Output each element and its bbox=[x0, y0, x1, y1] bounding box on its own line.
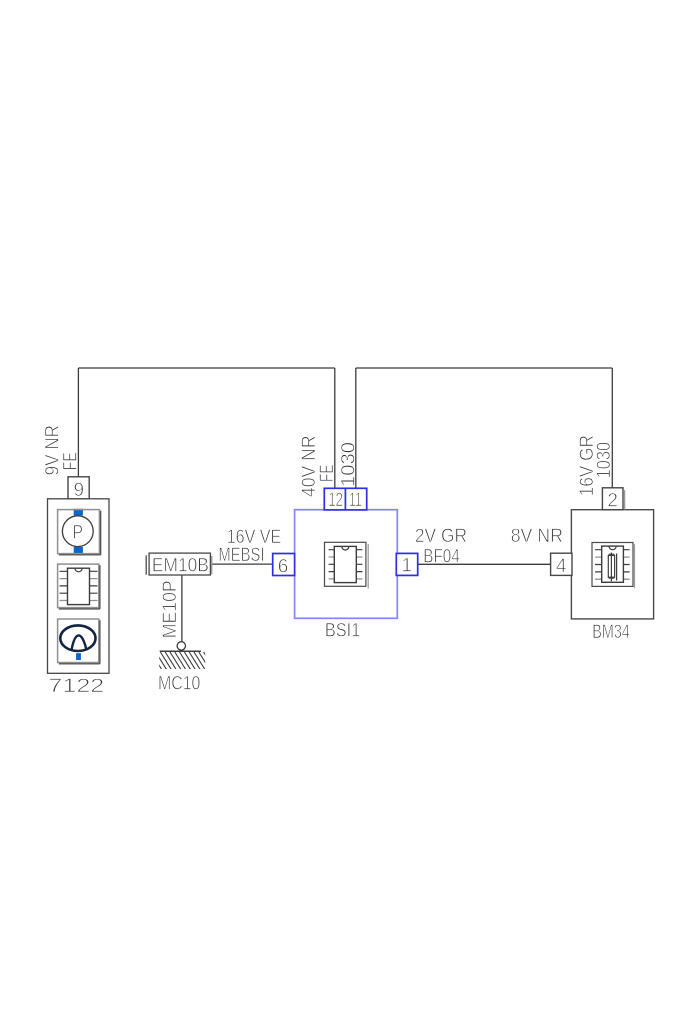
svg-text:12: 12 bbox=[328, 490, 343, 511]
P lamp circle bbox=[62, 516, 93, 547]
svg-text:6: 6 bbox=[278, 557, 289, 578]
IC notch (7122) bbox=[75, 568, 82, 572]
ground line bbox=[160, 650, 201, 652]
svg-text:BF04: BF04 bbox=[423, 545, 460, 567]
BM34 IC outer rect bbox=[592, 543, 633, 587]
svg-text:MEBSI: MEBSI bbox=[218, 544, 264, 566]
BSI1 IC pins right bbox=[356, 550, 362, 572]
sub-symbol box IC bbox=[58, 564, 100, 609]
blue tab bottom of P lamp bbox=[74, 547, 83, 554]
BM34 IC notch bbox=[609, 546, 616, 550]
BSI1 IC gray shadow bbox=[367, 544, 369, 589]
BSI1 IC notch bbox=[342, 546, 349, 550]
gauge bell curve bbox=[72, 635, 87, 649]
pin 2 gray shadow bbox=[624, 490, 626, 510]
pin 2 box bbox=[602, 488, 623, 510]
wire pin9 riser bbox=[77, 368, 79, 477]
BSI1 IC pins left bbox=[329, 550, 335, 572]
splice EM10B box bbox=[149, 553, 210, 575]
wire top-right horizontal net 1030 bbox=[356, 367, 613, 369]
gauge blue tab bottom bbox=[76, 653, 81, 660]
svg-text:1030: 1030 bbox=[593, 442, 615, 479]
BM34 IC pins left bbox=[595, 550, 602, 572]
module BM34 main box bbox=[571, 510, 653, 619]
BM34 fuse right line bbox=[616, 554, 618, 581]
pin 6 box bbox=[273, 554, 295, 576]
splice EM10B left tick bbox=[145, 555, 147, 574]
wire top-left horizontal 9V NR FE bbox=[78, 367, 334, 369]
BSI1 IC body bbox=[334, 546, 356, 582]
svg-text:8V NR: 8V NR bbox=[511, 525, 563, 547]
svg-text:9: 9 bbox=[74, 480, 85, 501]
BM34 fuse rect bbox=[608, 555, 614, 577]
svg-text:BSI1: BSI1 bbox=[325, 620, 360, 642]
svg-text:4: 4 bbox=[556, 556, 567, 577]
pin 4 box bbox=[551, 553, 572, 575]
BM34 fuse ticks bbox=[609, 554, 615, 578]
svg-text:ME10P: ME10P bbox=[159, 580, 181, 638]
svg-text:BM34: BM34 bbox=[592, 621, 630, 643]
wire riser from BSI1 pin 11 bbox=[355, 368, 357, 488]
IC pins left (7122) bbox=[60, 571, 68, 593]
sub-symbol box gauge bbox=[58, 619, 100, 664]
IC body (7122) bbox=[68, 568, 90, 604]
gauge ellipse bbox=[60, 625, 95, 651]
BSI1 IC outer rect bbox=[325, 542, 366, 586]
pin 9 box bbox=[68, 477, 89, 499]
blue tab top of P lamp bbox=[74, 509, 83, 516]
EM10B gray shadow line bbox=[211, 556, 213, 574]
ground hatch bbox=[146, 652, 215, 670]
svg-text:2: 2 bbox=[607, 491, 618, 512]
connector 7122 outer box bbox=[48, 499, 110, 674]
svg-text:P: P bbox=[73, 522, 84, 543]
svg-text:11: 11 bbox=[349, 490, 362, 511]
BM34 IC gray shadow bbox=[634, 544, 636, 588]
svg-text:1: 1 bbox=[402, 556, 413, 577]
wire EM10B to BSI1 pin6 net MEBSI bbox=[212, 563, 273, 565]
BM34 fuse center line bbox=[610, 553, 612, 582]
svg-text:FE: FE bbox=[316, 465, 338, 483]
svg-text:FE: FE bbox=[60, 452, 82, 470]
IC pins right (7122) bbox=[90, 571, 98, 593]
pin 12/11 box bbox=[324, 488, 366, 510]
svg-text:2V GR: 2V GR bbox=[415, 525, 467, 547]
BM34 IC body bbox=[602, 546, 624, 582]
pin 1 box bbox=[396, 553, 417, 575]
ECU BSI1 main box bbox=[295, 510, 398, 619]
wire BSI1 pin1 to BM34 pin4 net BF04 bbox=[418, 563, 551, 565]
svg-text:EM10B: EM10B bbox=[152, 555, 209, 577]
ground circle MC10 bbox=[177, 642, 185, 650]
pin 12/11 divider bbox=[344, 488, 346, 510]
BM34 IC pins right bbox=[623, 550, 629, 572]
svg-text:MC10: MC10 bbox=[158, 673, 201, 695]
wire EM10B down to ground ME10P bbox=[181, 575, 183, 642]
sub-symbol box P bbox=[58, 510, 101, 555]
svg-text:7122: 7122 bbox=[48, 675, 104, 697]
svg-text:1030: 1030 bbox=[338, 442, 360, 487]
wire drop into BM34 pin 2 bbox=[611, 368, 613, 488]
wire drop into BSI1 pin 12 bbox=[334, 368, 336, 488]
